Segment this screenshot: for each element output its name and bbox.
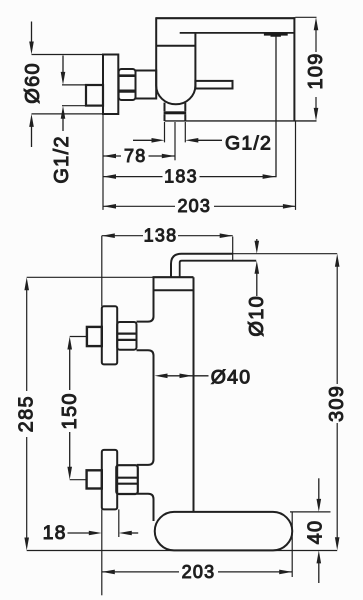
dimension 203 (top drawing) line: [103, 205, 296, 207]
middle union stub: [87, 327, 102, 346]
outlet neck sides: [165, 103, 186, 112]
109 top extension line: [295, 16, 316, 18]
outlet black band: [164, 111, 187, 114]
head right extension line (203): [291, 512, 293, 577]
dimension 285 line: [26, 284, 28, 543]
aerator extension line down (183): [275, 36, 277, 177]
dimension 309 line: [336, 260, 338, 543]
bottom extension line (285/40/309): [27, 550, 338, 552]
dimension Ø10 lower arrow: [256, 267, 258, 296]
svg-text:18: 18: [43, 522, 67, 544]
svg-text:150: 150: [59, 392, 81, 429]
svg-text:Ø40: Ø40: [211, 366, 251, 388]
dimension Ø10 upper arrow: [256, 239, 258, 247]
dimension 18 left arrow: [68, 532, 96, 534]
svg-text:40: 40: [304, 520, 326, 545]
spout inner line: [180, 32, 295, 34]
wall extension line upper (bottom drawing): [101, 236, 103, 307]
svg-text:285: 285: [16, 395, 38, 432]
shower head (stadium shape): [155, 512, 293, 551]
body top extension line (285): [27, 276, 154, 278]
wall extension line lower (18/203): [101, 509, 103, 595]
capsule rounded bottom: [156, 86, 195, 105]
head top extension (40): [290, 511, 331, 513]
svg-text:309: 309: [326, 385, 348, 422]
dimension 150 upper arrow: [69, 343, 71, 390]
riser pipe inner line: [180, 261, 257, 277]
lever handle: [195, 81, 232, 89]
18 right extension line: [118, 509, 120, 537]
dimension G1/2 left bottom arrow: [62, 112, 64, 131]
spout right edge: [293, 17, 295, 121]
svg-text:G1/2: G1/2: [51, 135, 73, 184]
middle union nut facet lines: [117, 334, 136, 340]
dimension 203 (bottom) line: [102, 571, 292, 573]
bottom union stub extension (150): [70, 479, 87, 481]
lower union bottom jog: [137, 494, 154, 521]
svg-text:109: 109: [305, 52, 327, 89]
body left edge: [153, 277, 155, 316]
svg-text:203: 203: [177, 196, 211, 216]
dimension 109 line upper segment: [315, 25, 317, 52]
dimension 109 arrows: [314, 17, 319, 30]
svg-text:Ø60: Ø60: [22, 62, 44, 104]
hex nut facet lines: [119, 74, 136, 77]
dimension 40 top arrow: [318, 478, 320, 505]
svg-text:Ø10: Ø10: [246, 295, 268, 337]
upper union top jog: [137, 316, 154, 321]
dimension 183 line: [103, 176, 276, 178]
flange top extension line: [32, 54, 104, 56]
middle union flange: [102, 306, 117, 364]
riser pipe outer line: [171, 254, 233, 277]
svg-text:G1/2: G1/2: [225, 132, 272, 154]
dimension 78 line: [103, 155, 175, 157]
bottom union hex nut: [116, 465, 138, 494]
dimension G1/2 right left arrow: [133, 139, 158, 141]
capsule body left edge: [155, 17, 157, 85]
connector block: [136, 71, 157, 99]
bottom union flange: [102, 450, 117, 510]
svg-text:138: 138: [144, 225, 178, 245]
dimension Ø60 top arrow: [31, 22, 33, 48]
spout right extension line down (203): [295, 121, 297, 210]
dimension Ø60 bottom arrow: [31, 121, 33, 147]
hex nut: [119, 69, 136, 100]
aerator bar: [264, 33, 288, 37]
dimension Ø40 arrow line: [160, 375, 209, 377]
body right edge: [193, 277, 195, 512]
middle union hex nut: [117, 322, 136, 350]
body cap inner line: [154, 289, 194, 291]
upper union bottom jog: [137, 350, 154, 459]
lower union top jog: [137, 459, 154, 465]
body cap top line: [153, 276, 194, 278]
outlet lower section sides: [165, 114, 186, 121]
dimension 138 line: [102, 235, 233, 237]
dimension 18 right arrow: [125, 532, 138, 534]
bottom extension line (109 dim): [165, 120, 317, 122]
dimension G1/2 left top arrow: [62, 56, 64, 79]
dimension 150 lower arrow: [69, 432, 71, 473]
stub extension lines (G1/2 left): [62, 85, 86, 106]
capsule top cap line: [156, 45, 195, 47]
svg-text:203: 203: [182, 562, 216, 582]
bottom union stub: [87, 470, 102, 488]
outlet center extension line: [174, 122, 176, 160]
capsule body right edge: [194, 33, 196, 86]
dimension 40 bottom arrow: [318, 557, 320, 583]
dimension G1/2 right right arrow: [191, 139, 222, 141]
svg-text:78: 78: [124, 146, 146, 166]
spout top line: [156, 17, 295, 19]
wall flange (Ø60): [103, 55, 118, 115]
G1/2 right extension lines: [165, 122, 186, 142]
wall extension line down: [102, 114, 104, 210]
pipe end cap / 138 extension: [232, 237, 234, 262]
riser pipe top extension (309): [233, 253, 338, 255]
flange bottom extension line: [32, 113, 104, 115]
bottom union nut facet lines: [116, 478, 138, 484]
middle union stub extension (150): [70, 336, 87, 338]
G1/2 pipe stub: [86, 85, 103, 106]
svg-text:183: 183: [164, 167, 198, 187]
dimension 109 line lower segment: [315, 97, 317, 113]
